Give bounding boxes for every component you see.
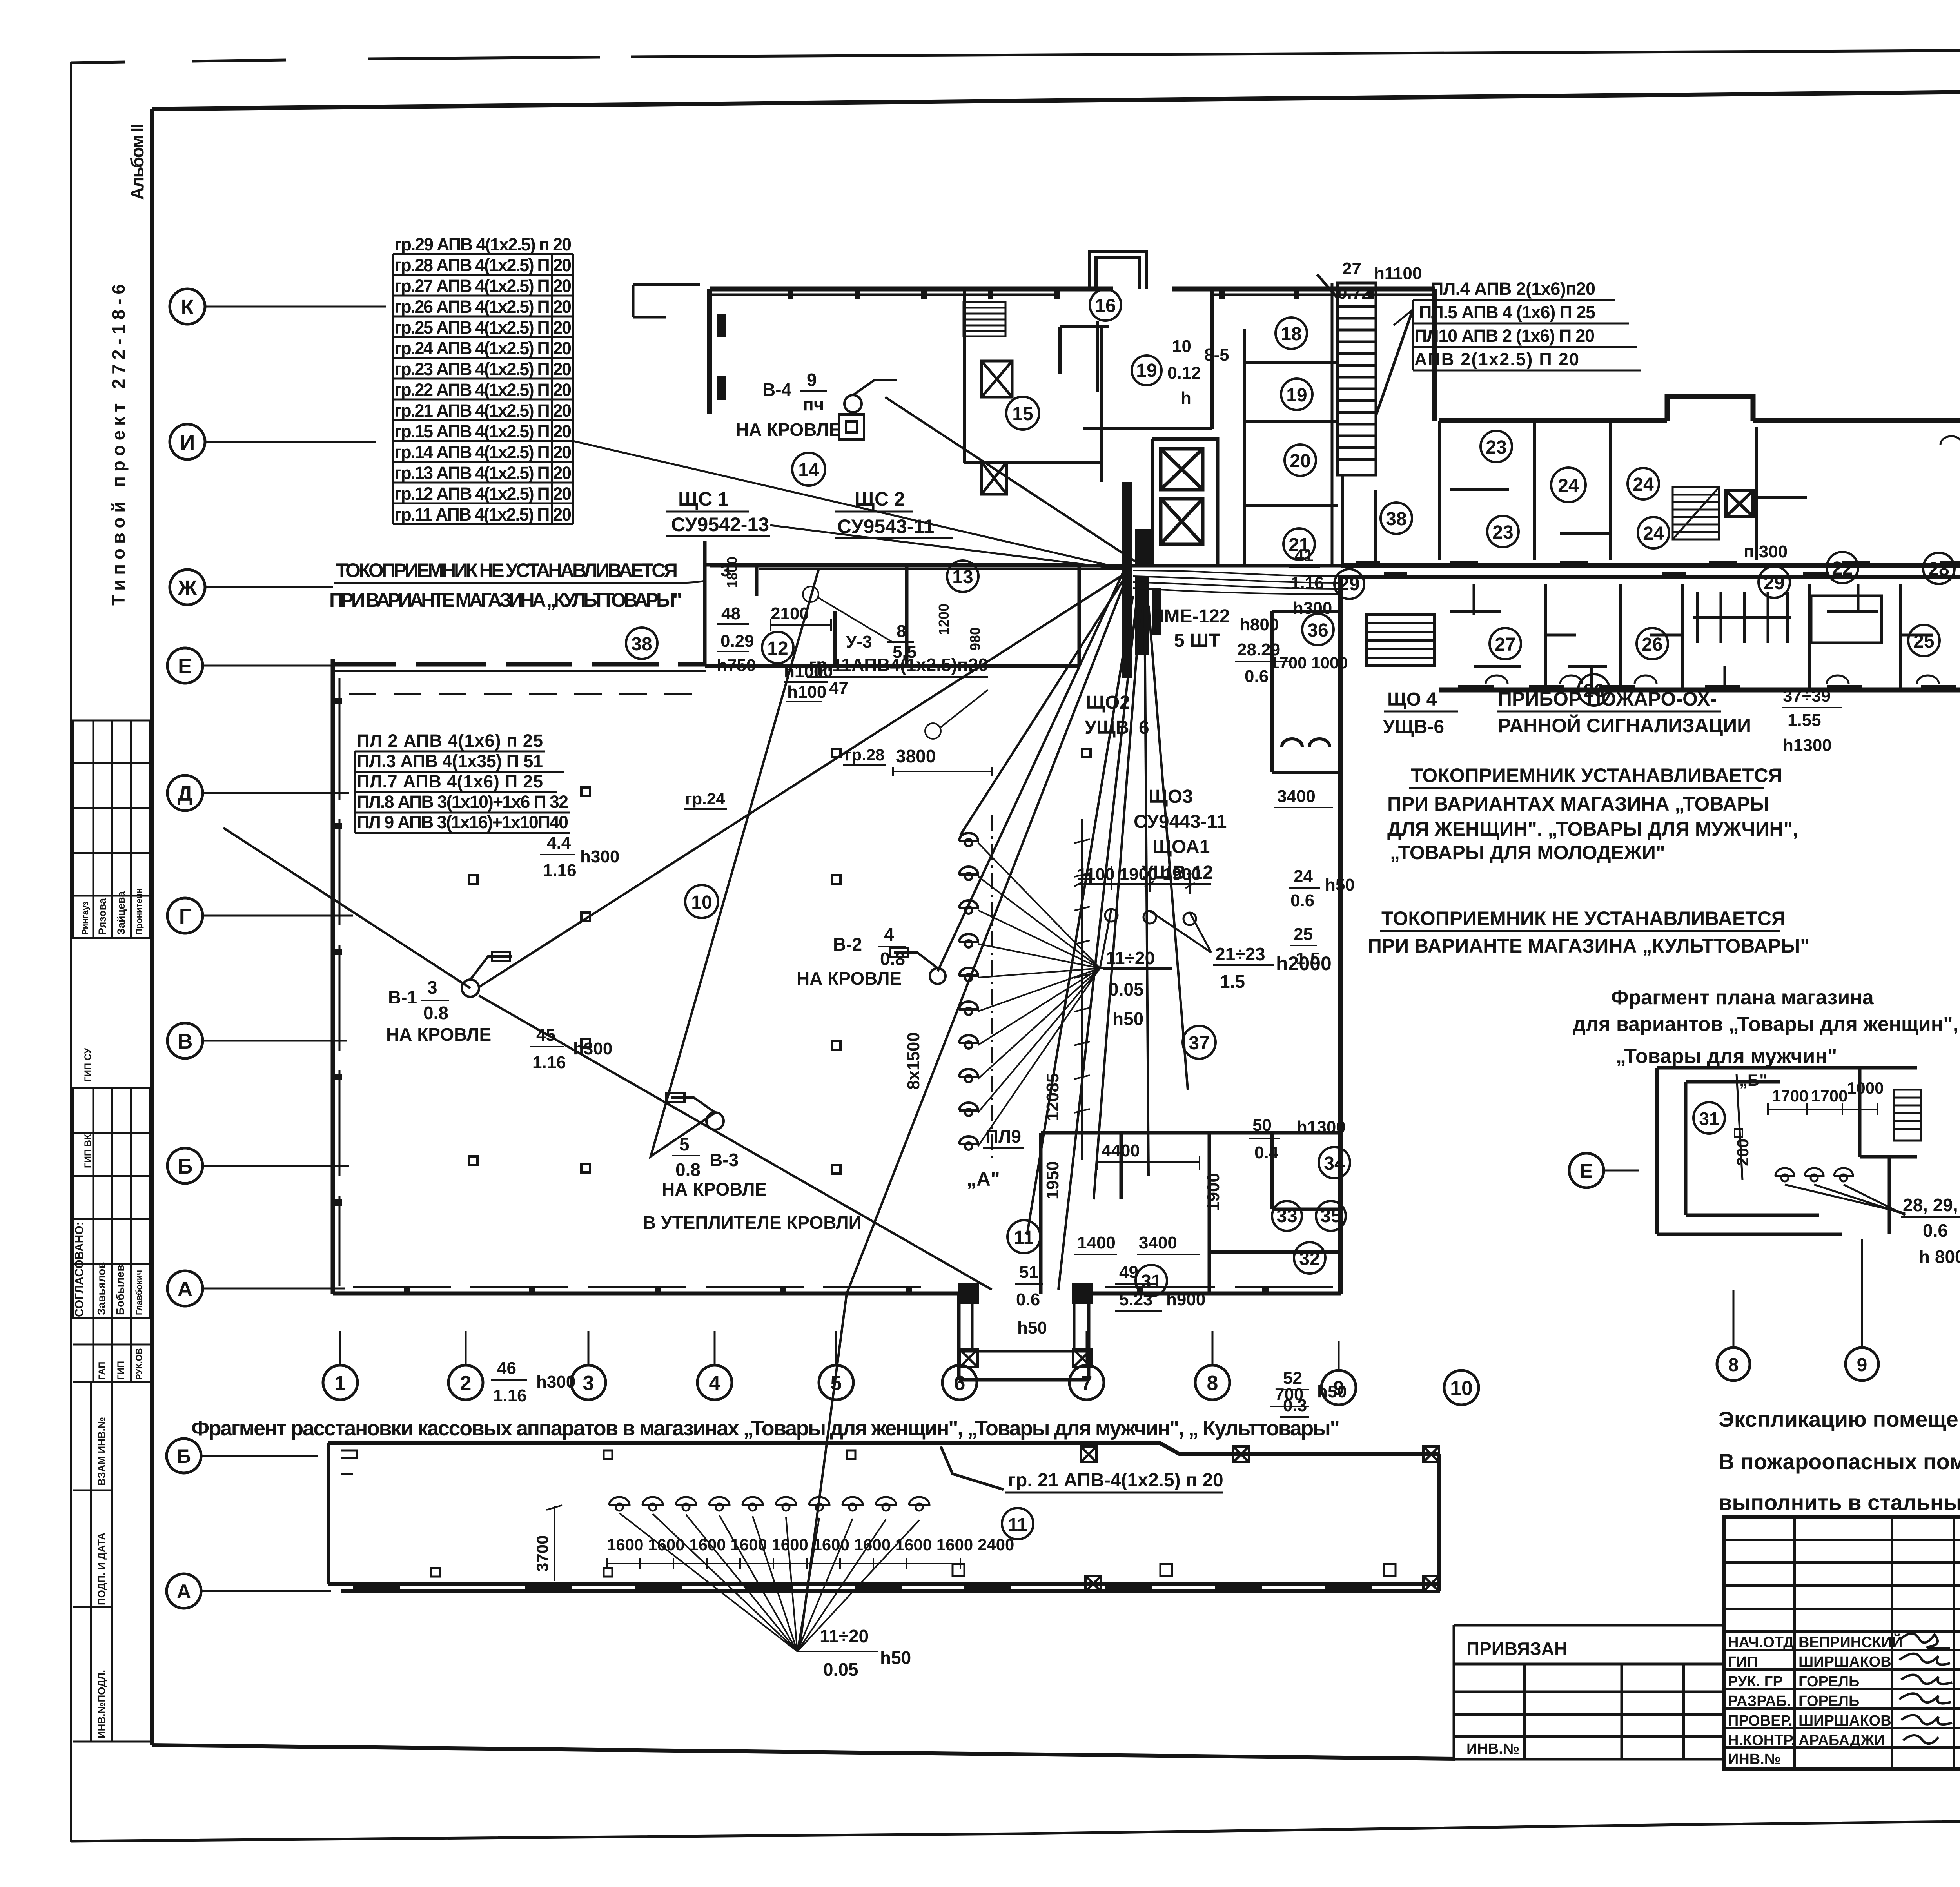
wire fan to lamp column: [978, 843, 1172, 1146]
svg-text:3700: 3700: [533, 1535, 552, 1572]
svg-text:ЩС 1: ЩС 1: [678, 488, 729, 510]
corridor door ticks: [1356, 561, 1960, 578]
svg-text:ГАП: ГАП: [97, 1362, 107, 1380]
svg-text:„Товары для мужчин": „Товары для мужчин": [1616, 1045, 1837, 1068]
svg-text:24: 24: [1294, 867, 1313, 886]
bottom-right rooms 31..35: [959, 1133, 1341, 1380]
svg-text:РАЗРАБ.: РАЗРАБ.: [1728, 1693, 1791, 1709]
roof fan symbol B-3: [666, 1093, 724, 1130]
long roof wires across hall: [223, 397, 1188, 1646]
svg-text:1700: 1700: [1772, 1087, 1808, 1105]
41 1.16 h300: [1290, 546, 1332, 618]
svg-text:РАННОЙ СИГНАЛИЗАЦИИ: РАННОЙ СИГНАЛИЗАЦИИ: [1498, 714, 1751, 737]
feeder table ПЛ4 (right): [1414, 279, 1595, 369]
roof shaft on top wall: [1089, 252, 1146, 289]
feeder table ПЛ2..ПЛ9: [357, 731, 568, 832]
svg-text:1: 1: [335, 1372, 346, 1395]
svg-text:1950: 1950: [1043, 1161, 1062, 1199]
page border top: [71, 48, 1960, 63]
svg-text:22: 22: [1832, 558, 1853, 579]
svg-text:h1000: h1000: [784, 662, 833, 681]
svg-text:24: 24: [1643, 523, 1664, 544]
svg-text:1.16: 1.16: [493, 1386, 527, 1405]
svg-text:1000: 1000: [1847, 1079, 1884, 1097]
svg-text:0.6: 0.6: [1923, 1220, 1948, 1241]
svg-text:35: 35: [1320, 1206, 1341, 1227]
svg-text:НА КРОВЛЕ: НА КРОВЛЕ: [662, 1179, 767, 1199]
svg-text:„Б": „Б": [1739, 1071, 1767, 1089]
svg-text:СУ9542-13: СУ9542-13: [671, 513, 769, 535]
sales hall outer walls: [333, 577, 1341, 1294]
svg-text:h900: h900: [1166, 1290, 1205, 1309]
svg-text:ГОРЕЛЬ: ГОРЕЛЬ: [1798, 1693, 1859, 1709]
svg-text:ПЛ 2 АПВ 4(1х6) п 25: ПЛ 2 АПВ 4(1х6) п 25: [357, 731, 543, 751]
svg-text:ПЛ.3 АПВ 4(1х35) П 51: ПЛ.3 АПВ 4(1х35) П 51: [357, 751, 543, 771]
wing stair: [1673, 487, 1719, 539]
svg-text:Экспликацию помещений см. ли: Экспликацию помещений см. лист 7.: [1719, 1407, 1960, 1432]
svg-text:ГИП: ГИП: [1728, 1654, 1758, 1670]
svg-text:УЩВ: УЩВ: [1085, 717, 1129, 738]
svg-text:h100: h100: [787, 682, 826, 702]
svg-text:12: 12: [767, 638, 788, 659]
svg-text:РУК. ГР: РУК. ГР: [1728, 1673, 1783, 1690]
svg-text:ПЛ.5 АПВ 4 (1х6) П 25: ПЛ.5 АПВ 4 (1х6) П 25: [1419, 302, 1595, 322]
svg-text:25: 25: [1913, 631, 1934, 652]
svg-text:26: 26: [1583, 680, 1604, 701]
wing elevator: [1726, 491, 1753, 517]
wing corridor: [1341, 421, 1960, 577]
sidebar signature table 2: [73, 1088, 150, 1382]
svg-text:УЩВ-12: УЩВ-12: [1142, 862, 1213, 883]
svg-text:200: 200: [1733, 1139, 1752, 1166]
svg-text:НА КРОВЛЕ: НА КРОВЛЕ: [386, 1024, 491, 1045]
svg-text:25: 25: [1294, 925, 1313, 944]
svg-text:h1100: h1100: [1374, 264, 1422, 283]
svg-text:ГИП СУ: ГИП СУ: [83, 1047, 93, 1082]
svg-text:А: А: [177, 1580, 191, 1602]
привязан table: [1454, 1625, 1724, 1759]
svg-text:гр.23 АПВ 4(1х2.5) П 20: гр.23 АПВ 4(1х2.5) П 20: [394, 359, 572, 379]
central stair ramp strip: [1317, 274, 1413, 566]
svg-text:Н.КОНТР.: Н.КОНТР.: [1728, 1732, 1795, 1749]
svg-text:„ТОВАРЫ ДЛЯ МОЛОДЕЖИ": „ТОВАРЫ ДЛЯ МОЛОДЕЖИ": [1390, 842, 1665, 864]
svg-text:Главбокич: Главбокич: [134, 1270, 144, 1315]
svg-text:гр.27 АПВ 4(1х2.5) П 20: гр.27 АПВ 4(1х2.5) П 20: [394, 276, 572, 296]
svg-text:18: 18: [1281, 324, 1301, 345]
svg-text:24: 24: [1558, 475, 1579, 496]
ПМЕ-122 5ШТ: [1151, 606, 1230, 651]
svg-text:1.55: 1.55: [1788, 711, 1821, 730]
svg-text:гр.21 АПВ 4(1х2.5) П 20: гр.21 АПВ 4(1х2.5) П 20: [394, 401, 572, 421]
svg-text:пч: пч: [803, 394, 824, 414]
sidebar lower columns: [73, 1382, 150, 1742]
svg-text:для вариантов „Товары для женщ: для вариантов „Товары для женщин",: [1573, 1013, 1958, 1036]
svg-text:0.4: 0.4: [1254, 1143, 1279, 1162]
svg-text:ВЕПРИНСКИЙ: ВЕПРИНСКИЙ: [1798, 1633, 1902, 1651]
svg-text:гр.24: гр.24: [685, 789, 725, 808]
svg-text:Е: Е: [178, 655, 192, 678]
wire bundle along corridor: [759, 569, 1960, 594]
svg-text:32: 32: [1299, 1248, 1320, 1269]
svg-text:1.5: 1.5: [1296, 949, 1320, 968]
svg-text:5.23: 5.23: [1119, 1290, 1153, 1309]
switchboard spine (dark panels): [1122, 482, 1161, 678]
fan of leaders to 11-20: [619, 1513, 919, 1651]
svg-text:4.4: 4.4: [547, 833, 571, 853]
svg-text:23: 23: [1492, 522, 1513, 543]
svg-text:3: 3: [427, 977, 437, 998]
svg-text:13: 13: [952, 567, 973, 588]
small elevator boxes: [982, 361, 1012, 494]
svg-text:Фрагмент плана магазина: Фрагмент плана магазина: [1611, 986, 1874, 1009]
middle rooms band 12/13: [705, 541, 1341, 666]
svg-text:Д: Д: [178, 782, 192, 806]
upper block interior walls: [964, 289, 1212, 482]
svg-text:ВЗАМ ИНВ.№: ВЗАМ ИНВ.№: [96, 1417, 107, 1486]
svg-text:3800: 3800: [896, 746, 936, 766]
svg-text:ПРИ ВАРИАНТЕ МАГАЗИНА „КУЛЬТТО: ПРИ ВАРИАНТЕ МАГАЗИНА „КУЛЬТТОВАРЫ": [329, 589, 682, 611]
svg-text:Бобылев: Бобылев: [114, 1265, 126, 1315]
svg-text:6: 6: [1139, 717, 1149, 738]
svg-text:29: 29: [1764, 573, 1784, 593]
right wing outer walls: [1439, 397, 1960, 690]
svg-text:ПРИ ВАРИАНТЕ МАГАЗИНА „КУЛЬТ: ПРИ ВАРИАНТЕ МАГАЗИНА „КУЛЬТТОВАРЫ": [1368, 935, 1809, 957]
svg-text:8-5: 8-5: [1204, 345, 1229, 365]
upper block canopy: [633, 285, 1435, 317]
svg-text:45: 45: [536, 1025, 555, 1045]
equipment comb room 25: [1693, 592, 1882, 643]
roof fan symbol B-2: [890, 948, 946, 984]
svg-text:гр.28: гр.28: [845, 746, 885, 764]
svg-text:9: 9: [807, 370, 817, 390]
svg-text:гр.28 АПВ 4(1х2.5) П 20: гр.28 АПВ 4(1х2.5) П 20: [394, 255, 572, 275]
svg-text:1.5: 1.5: [1220, 971, 1245, 992]
ЩО2 УЩВ-6 labels: [1085, 692, 1149, 738]
E axis dashed gridline: [349, 693, 706, 695]
svg-text:0.6: 0.6: [1245, 667, 1269, 686]
stair annex right of hall: [1367, 615, 1434, 666]
svg-text:гр.29 АПВ 4(1х2.5) п 20: гр.29 АПВ 4(1х2.5) п 20: [394, 234, 572, 254]
svg-text:14: 14: [798, 460, 819, 481]
svg-text:h300: h300: [573, 1039, 612, 1058]
svg-text:гр.12 АПВ 4(1х2.5) П 20: гр.12 АПВ 4(1х2.5) П 20: [394, 484, 572, 504]
svg-text:2100: 2100: [771, 604, 809, 623]
svg-text:7: 7: [1081, 1372, 1093, 1395]
page border left: [70, 62, 72, 1842]
svg-text:34: 34: [1324, 1153, 1345, 1174]
svg-text:h300: h300: [536, 1372, 575, 1392]
svg-text:21: 21: [1289, 535, 1309, 555]
misc small labels upper plan: [717, 259, 1788, 702]
strip walls: [328, 1443, 1439, 1591]
svg-text:ПОДП. И ДАТА: ПОДП. И ДАТА: [96, 1533, 107, 1605]
rooms 18-21 column walls: [1245, 329, 1376, 566]
svg-text:В-4: В-4: [762, 379, 792, 400]
svg-text:ИНВ.№: ИНВ.№: [1728, 1751, 1781, 1767]
svg-text:4: 4: [884, 924, 894, 945]
svg-text:В-1: В-1: [388, 987, 417, 1007]
svg-text:h 800: h 800: [1919, 1247, 1960, 1267]
svg-text:8х1500: 8х1500: [904, 1032, 923, 1090]
svg-text:1.16: 1.16: [532, 1053, 566, 1072]
svg-text:Пронитеин: Пронитеин: [134, 888, 144, 935]
37-39 1.55 h1300: [1783, 686, 1832, 755]
svg-text:11: 11: [1014, 1227, 1034, 1248]
svg-text:В-3: В-3: [710, 1150, 739, 1170]
svg-text:У-3: У-3: [846, 632, 872, 651]
svg-text:гр.13 АПВ 4(1х2.5) П 20: гр.13 АПВ 4(1х2.5) П 20: [394, 463, 572, 483]
8x1500 dimension line: [1074, 819, 1090, 1160]
dim 1100 1900 1900: [1074, 866, 1211, 894]
row circles K..A with leaders: [167, 289, 205, 1306]
svg-text:h50: h50: [1017, 1318, 1047, 1337]
svg-text:3400: 3400: [1277, 787, 1316, 806]
45/1.16 h300: [532, 1025, 612, 1072]
upper block column ticks: [717, 289, 1374, 400]
svg-text:К: К: [181, 296, 194, 319]
svg-text:гр. 21 АПВ-4(1х2.5) п 20: гр. 21 АПВ-4(1х2.5) п 20: [1008, 1470, 1223, 1491]
hall lamp column (10 lamps): [959, 833, 978, 1150]
svg-text:h300: h300: [580, 847, 619, 866]
wing lower row extra walls: [1474, 584, 1933, 690]
svg-text:37÷39: 37÷39: [1783, 686, 1831, 706]
24/0.6 h50 + 25/1.5: [1277, 787, 1355, 968]
roof fan symbol B-1: [462, 952, 512, 997]
svg-text:1900: 1900: [1204, 1173, 1223, 1211]
svg-text:3: 3: [583, 1372, 594, 1395]
svg-text:h50: h50: [1325, 875, 1355, 895]
wing washbasin arcs: [1486, 436, 1960, 684]
ЩО4 УЩВ-6 under stair: [1383, 689, 1444, 737]
svg-text:980: 980: [967, 627, 983, 651]
hall wall column ticks: [333, 698, 1269, 1294]
svg-text:1700 1000: 1700 1000: [1270, 653, 1348, 672]
токоприемник top-left block: [329, 559, 682, 611]
svg-text:8: 8: [897, 622, 906, 641]
svg-text:выполнить в стальных тонкост: выполнить в стальных тонкостенных трубах…: [1719, 1490, 1960, 1515]
svg-text:46: 46: [497, 1359, 516, 1378]
svg-text:СУ9443-11: СУ9443-11: [1134, 811, 1227, 832]
токоприемник text blocks: [1387, 764, 1798, 864]
svg-text:гр.15 АПВ 4(1х2.5) П 20: гр.15 АПВ 4(1х2.5) П 20: [394, 421, 572, 441]
svg-text:Ж: Ж: [178, 576, 198, 600]
svg-text:СОГЛАСОВАНО:: СОГЛАСОВАНО:: [73, 1221, 86, 1317]
svg-text:38: 38: [1386, 509, 1406, 530]
main elevator shafts: [1152, 439, 1218, 566]
svg-text:10: 10: [1450, 1377, 1473, 1400]
svg-text:8: 8: [1207, 1372, 1218, 1395]
44/1.16 h300 near Д row: [543, 833, 619, 880]
svg-text:ГОРЕЛЬ: ГОРЕЛЬ: [1798, 1673, 1859, 1690]
room 36 walls: [1272, 611, 1341, 772]
svg-text:0.29: 0.29: [720, 631, 754, 651]
svg-text:ЩОА1: ЩОА1: [1152, 836, 1210, 857]
strip lamps row: [609, 1497, 929, 1511]
svg-text:31: 31: [1141, 1271, 1161, 1292]
svg-text:В пожароопасных помещениях (: В пожароопасных помещениях (13 и 37) про…: [1719, 1449, 1960, 1474]
svg-text:ПЛ.8 АПВ 3(1х10)+1х6 П 32: ПЛ.8 АПВ 3(1х10)+1х6 П 32: [357, 792, 568, 812]
svg-text:ГИП: ГИП: [116, 1361, 126, 1380]
svg-text:27: 27: [1495, 634, 1515, 655]
svg-text:51: 51: [1019, 1263, 1038, 1282]
svg-text:СУ9543-11: СУ9543-11: [837, 515, 934, 537]
svg-text:5 ШТ: 5 ШТ: [1174, 630, 1220, 651]
svg-text:37: 37: [1189, 1033, 1209, 1054]
upper block outer walls: [710, 289, 1435, 421]
wing room walls lower row: [1450, 584, 1901, 690]
svg-text:ПРИВЯЗАН: ПРИВЯЗАН: [1466, 1638, 1567, 1659]
svg-text:ПРОВЕР.: ПРОВЕР.: [1728, 1713, 1793, 1729]
svg-text:0.6: 0.6: [1016, 1290, 1040, 1309]
svg-text:ПЛ.7 АПВ 4(1х6) П 25: ПЛ.7 АПВ 4(1х6) П 25: [357, 771, 543, 791]
svg-text:1.16: 1.16: [1290, 573, 1324, 593]
svg-text:ТОКОПРИЕМНИК НЕ УСТАНАВЛИВАЕТС: ТОКОПРИЕМНИК НЕ УСТАНАВЛИВАЕТСЯ: [336, 559, 678, 581]
svg-text:ШИРШАКОВ: ШИРШАКОВ: [1798, 1713, 1891, 1729]
svg-text:НА КРОВЛЕ: НА КРОВЛЕ: [797, 968, 902, 989]
svg-text:НАЧ.ОТД: НАЧ.ОТД: [1728, 1634, 1794, 1651]
svg-text:ПЛ10 АПВ 2 (1х6) П 20: ПЛ10 АПВ 2 (1х6) П 20: [1414, 326, 1595, 346]
svg-text:19: 19: [1286, 385, 1307, 406]
svg-text:15: 15: [1012, 404, 1033, 425]
frame bottom: [152, 1745, 1455, 1759]
svg-text:19: 19: [1136, 360, 1157, 381]
top-left feeder table: [394, 234, 572, 524]
svg-text:700: 700: [1275, 1385, 1303, 1404]
ЩО3 stack: [1134, 786, 1227, 883]
svg-text:ПЛ.4 АПВ 2(1х6)п20: ПЛ.4 АПВ 2(1х6)п20: [1431, 279, 1595, 299]
svg-text:ПМЕ-122: ПМЕ-122: [1151, 606, 1230, 627]
svg-text:0.6: 0.6: [1290, 891, 1314, 910]
svg-text:Г: Г: [179, 905, 191, 928]
svg-text:Рингауз: Рингауз: [80, 901, 90, 935]
svg-text:29: 29: [1339, 574, 1359, 595]
svg-text:31: 31: [1699, 1109, 1719, 1129]
svg-text:АРАБАДЖИ: АРАБАДЖИ: [1798, 1732, 1885, 1749]
svg-text:Фрагмент расстановки кассовых: Фрагмент расстановки кассовых аппаратов …: [191, 1417, 1340, 1440]
svg-text:33: 33: [1276, 1206, 1297, 1227]
svg-text:0.05: 0.05: [1109, 979, 1144, 1000]
svg-text:Е: Е: [1580, 1160, 1593, 1182]
svg-text:0.12: 0.12: [1167, 363, 1201, 383]
svg-text:ЩО3: ЩО3: [1149, 786, 1193, 807]
svg-text:h750: h750: [717, 656, 756, 675]
svg-text:h1300: h1300: [1297, 1118, 1346, 1137]
svg-text:ЩО 4: ЩО 4: [1387, 689, 1437, 710]
svg-text:гр.11 АПВ 4(1х2.5) П 20: гр.11 АПВ 4(1х2.5) П 20: [394, 504, 572, 524]
svg-text:5.5: 5.5: [893, 642, 916, 662]
svg-text:гр.25 АПВ 4(1х2.5) П 20: гр.25 АПВ 4(1х2.5) П 20: [394, 318, 572, 337]
E circle + leaders: [1569, 1153, 1604, 1188]
svg-text:1400: 1400: [1077, 1233, 1116, 1252]
room number circles: [626, 289, 1960, 1296]
svg-text:ГИП ВК: ГИП ВК: [83, 1134, 93, 1168]
svg-text:0.05: 0.05: [823, 1659, 858, 1680]
svg-text:Завьялов: Завьялов: [95, 1262, 107, 1315]
col circles 8,9: [1717, 1348, 1750, 1381]
svg-text:ТОКОПРИЕМНИК НЕ УСТАНАВЛИВАЕТ: ТОКОПРИЕМНИК НЕ УСТАНАВЛИВАЕТСЯ: [1381, 907, 1786, 929]
signatures scribbles: [1899, 1634, 1952, 1744]
svg-text:10: 10: [1172, 337, 1191, 356]
svg-text:11÷20: 11÷20: [820, 1626, 869, 1646]
svg-text:Рязова: Рязова: [96, 898, 108, 935]
svg-text:4400: 4400: [1102, 1141, 1140, 1160]
svg-text:9: 9: [1857, 1355, 1867, 1375]
svg-text:5: 5: [679, 1134, 690, 1154]
room 31..35 annotations: [1016, 1116, 1347, 1415]
svg-text:21÷23: 21÷23: [1215, 944, 1265, 964]
svg-text:h50: h50: [1112, 1009, 1143, 1029]
svg-text:ТОКОПРИЕМНИК УСТАНАВЛИВАЕТСЯ: ТОКОПРИЕМНИК УСТАНАВЛИВАЕТСЯ: [1411, 764, 1782, 786]
svg-text:38: 38: [631, 634, 652, 655]
fragment row circles Б А: [167, 1439, 201, 1473]
svg-text:„А": „А": [967, 1168, 1000, 1190]
h800 28.29 0.6: [1237, 615, 1280, 686]
sidebar rotated stamp texts: [108, 123, 147, 606]
column circles 1..10: [323, 1365, 1479, 1405]
svg-text:1.16: 1.16: [543, 861, 577, 880]
svg-text:11: 11: [1008, 1514, 1027, 1535]
svg-text:Б: Б: [177, 1445, 191, 1467]
46/1.16 h300 bottom: [493, 1359, 575, 1405]
strip column symbols: [1081, 1446, 1439, 1591]
svg-text:h800: h800: [1240, 615, 1279, 634]
svg-text:h1300: h1300: [1783, 736, 1832, 755]
porch entry: [959, 1294, 1089, 1351]
svg-text:Альбом II: Альбом II: [127, 123, 147, 200]
svg-text:УЩВ-6: УЩВ-6: [1383, 717, 1444, 737]
svg-text:ИНВ.№: ИНВ.№: [1466, 1741, 1519, 1757]
svg-text:0.72: 0.72: [1338, 283, 1371, 303]
svg-text:27: 27: [1342, 259, 1361, 278]
fire alarm label: [1498, 688, 1751, 737]
svg-text:h: h: [1181, 388, 1191, 408]
svg-text:20: 20: [1290, 451, 1310, 472]
svg-text:0.8: 0.8: [423, 1003, 448, 1023]
svg-text:16: 16: [1095, 296, 1116, 316]
svg-text:h50: h50: [880, 1647, 911, 1668]
svg-text:Зайцева: Зайцева: [115, 891, 127, 935]
svg-text:В УТЕПЛИТЕЛЕ КРОВЛИ: В УТЕПЛИТЕЛЕ КРОВЛИ: [643, 1212, 862, 1233]
svg-text:28: 28: [1928, 559, 1949, 580]
svg-text:1700: 1700: [1811, 1087, 1847, 1105]
svg-text:8: 8: [1728, 1355, 1739, 1375]
svg-text:ШИРШАКОВ: ШИРШАКОВ: [1798, 1654, 1891, 1670]
svg-text:26: 26: [1642, 634, 1662, 655]
svg-text:гр.26 АПВ 4(1х2.5) П 20: гр.26 АПВ 4(1х2.5) П 20: [394, 297, 572, 317]
lamps: [1737, 1074, 1905, 1215]
svg-text:23: 23: [1486, 437, 1506, 458]
svg-text:гр.14 АПВ 4(1х2.5) П 20: гр.14 АПВ 4(1х2.5) П 20: [394, 442, 572, 462]
hall interior columns: [469, 749, 1091, 1174]
panel labels ЩС1 ЩС2: [671, 488, 934, 537]
svg-text:10: 10: [691, 892, 712, 913]
svg-text:28, 29, 29: 28, 29, 29: [1903, 1195, 1960, 1215]
svg-text:п 300: п 300: [1744, 542, 1788, 561]
svg-text:36: 36: [1307, 620, 1328, 641]
3700 vertical dim: [546, 1505, 562, 1581]
svg-text:ПЛ9: ПЛ9: [985, 1126, 1021, 1147]
svg-text:47: 47: [829, 679, 848, 698]
svg-text:ЩС 2: ЩС 2: [855, 488, 905, 510]
svg-text:ДЛЯ ЖЕНЩИН". „ТОВАРЫ ДЛЯ МУЖЧ: ДЛЯ ЖЕНЩИН". „ТОВАРЫ ДЛЯ МУЖЧИН",: [1387, 818, 1798, 840]
svg-text:0.8: 0.8: [880, 949, 905, 969]
fragment stair right: [1894, 1090, 1921, 1141]
page border bottom: [71, 1819, 1960, 1841]
svg-text:В-2: В-2: [833, 934, 862, 954]
svg-text:гр.24 АПВ 4(1х2.5) П 20: гр.24 АПВ 4(1х2.5) П 20: [394, 338, 572, 358]
svg-text:РУК.ОВ: РУК.ОВ: [134, 1348, 144, 1380]
svg-text:2: 2: [460, 1372, 472, 1395]
